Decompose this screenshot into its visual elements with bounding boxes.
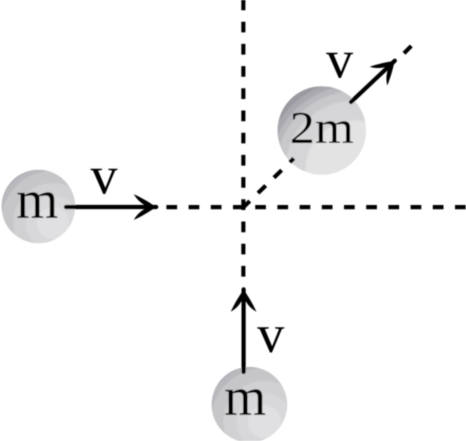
ball 2m upper right [278, 86, 367, 175]
ball m left [2, 170, 76, 244]
velocity arrow (2m ball) shaft [351, 61, 395, 102]
svg-text:v: v [257, 304, 284, 364]
svg-text:m: m [224, 367, 266, 427]
svg-text:v: v [91, 146, 118, 206]
velocity arrow (bottom ball) shaft [242, 289, 246, 372]
diagonal dash beyond arrow tip [404, 46, 411, 53]
svg-text:2m: 2m [290, 102, 354, 153]
velocity arrow (left ball) shaft [66, 205, 156, 209]
diagonal dashed trajectory (origin to ball rim) [244, 158, 294, 207]
horizontal dashed axis [166, 205, 466, 209]
velocity arrow (left ball) head [134, 194, 154, 220]
svg-text:v: v [326, 30, 353, 90]
svg-text:m: m [16, 170, 58, 230]
velocity arrow (2m ball) head [370, 53, 402, 85]
velocity arrow (bottom ball) head [231, 292, 257, 312]
ball m bottom [212, 367, 288, 441]
vertical dashed axis [241, 0, 245, 277]
